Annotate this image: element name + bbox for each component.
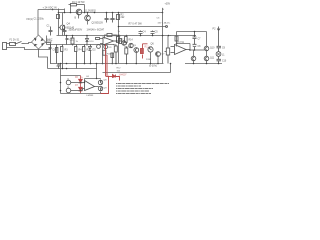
svg-text:1k: 1k	[76, 41, 79, 43]
wire to jack2	[60, 90, 62, 92]
transistor Q13	[122, 41, 126, 45]
svg-text:C7: C7	[198, 39, 202, 41]
bridge rectifier BR1	[32, 35, 46, 49]
diode D10	[86, 36, 89, 46]
red wire B	[106, 55, 108, 76]
transistor Q8	[98, 80, 102, 84]
pot P2	[217, 27, 220, 47]
svg-text:Q6: Q6	[151, 43, 155, 46]
bottom rail	[50, 63, 164, 65]
svg-text:R10: R10	[125, 46, 130, 48]
capacitor C5	[151, 31, 155, 36]
svg-text:1N4148 + BC547: 1N4148 + BC547	[87, 30, 105, 32]
wire x64 down	[63, 9, 65, 25]
svg-text:C6: C6	[157, 18, 161, 20]
svg-text:D2: D2	[93, 49, 97, 52]
input rail	[52, 9, 54, 11]
svg-text:C11: C11	[70, 40, 75, 42]
jack J3	[66, 88, 71, 93]
resistor R8	[107, 34, 112, 37]
transistor Q1	[76, 9, 82, 15]
wire bridge minus down	[39, 49, 48, 69]
pot P1	[165, 47, 170, 64]
U3 feedback	[177, 44, 191, 51]
svg-text:R4: R4	[79, 49, 83, 52]
svg-text:R12: R12	[117, 68, 122, 70]
op-amp U4	[71, 81, 99, 91]
diode D1 on x58	[57, 15, 60, 19]
svg-text:3300: 3300	[47, 41, 53, 44]
svg-text:LM393: LM393	[87, 95, 94, 97]
resistor R1 over Q1	[69, 4, 85, 6]
svg-text:(0-30V): (0-30V)	[149, 65, 157, 68]
transistor Q9	[98, 86, 102, 91]
red diode D7	[79, 83, 83, 93]
svg-text:F1 2A: F1 2A	[10, 39, 17, 42]
svg-text:R7 0.47 5W: R7 0.47 5W	[129, 23, 143, 26]
capacitor C0	[49, 27, 53, 36]
svg-text:C9: C9	[222, 47, 226, 49]
svg-text:D9: D9	[109, 47, 113, 49]
transistor Q10	[204, 46, 209, 51]
resistor R19	[111, 53, 114, 64]
wire U4 top	[85, 79, 101, 83]
lamp L1	[216, 52, 221, 57]
wire U2 minus down	[102, 44, 104, 64]
diode D3	[56, 45, 58, 64]
svg-text:Q2 BD139: Q2 BD139	[92, 21, 104, 24]
cluster feed wire	[60, 64, 62, 94]
zener D2	[89, 45, 92, 64]
wire U3 plus up	[176, 32, 178, 47]
capacitor C7	[193, 32, 197, 45]
capacitor C9	[217, 46, 222, 51]
svg-text:D7: D7	[75, 85, 79, 87]
node	[94, 12, 96, 14]
U3 output node	[189, 49, 191, 52]
top rail	[59, 12, 163, 14]
wire AC top	[25, 43, 32, 44]
output bus	[185, 63, 222, 65]
rail y26	[119, 26, 167, 28]
capacitor C4	[139, 31, 143, 36]
capacitor C6	[49, 45, 52, 64]
vertical x58	[58, 9, 60, 36]
top wire right	[177, 31, 207, 33]
red diode D6	[79, 76, 83, 83]
svg-text:Q11: Q11	[210, 58, 215, 60]
svg-text:C5: C5	[155, 31, 159, 34]
diode D9	[104, 45, 108, 49]
svg-text:1k: 1k	[118, 31, 121, 33]
svg-text:Q5: Q5	[133, 45, 137, 47]
rail end arrow	[163, 9, 164, 13]
svg-text:3300uF/50V: 3300uF/50V	[69, 29, 83, 32]
vertical x163	[162, 13, 164, 64]
red diode D5	[106, 75, 120, 81]
transistor Q7	[156, 52, 161, 57]
transistor Q5	[134, 48, 139, 53]
rail y35.5	[57, 35, 171, 37]
wire base drive	[190, 49, 204, 51]
node after D6	[80, 82, 82, 84]
jack J2	[66, 80, 71, 85]
svg-text:220R: 220R	[146, 59, 152, 61]
svg-text:+35V: +35V	[165, 3, 171, 6]
wire Q2 emitter	[87, 21, 89, 25]
capacitor C8	[193, 44, 197, 50]
capacitor C1 big	[63, 27, 67, 36]
svg-text:R3: R3	[65, 49, 69, 52]
capacitor C10	[217, 56, 222, 63]
wire Q12 collector	[193, 50, 195, 56]
transistor Q4	[59, 25, 66, 30]
resistor R17	[175, 36, 178, 41]
resistor R16	[103, 50, 106, 55]
svg-text:R14: R14	[129, 40, 134, 42]
wire Q12 emitter	[193, 61, 195, 64]
wire Q10 top	[206, 32, 208, 47]
wire bridge plus up	[37, 10, 39, 36]
wire U2 fb	[105, 35, 117, 41]
rail y35.5 extension	[170, 35, 196, 37]
transistor Q6	[148, 46, 153, 52]
notes text	[116, 84, 169, 94]
svg-text:C1 2200u: C1 2200u	[34, 17, 45, 20]
resistor R5	[83, 45, 85, 64]
vertical x118	[118, 13, 120, 64]
svg-text:VR(1): VR(1)	[26, 17, 33, 21]
svg-text:34V 1.5A DC: 34V 1.5A DC	[158, 22, 171, 25]
svg-text:Q4: Q4	[67, 23, 71, 26]
diode D8	[97, 45, 101, 49]
switch S1	[15, 39, 25, 43]
svg-text:R8 10k: R8 10k	[114, 35, 122, 37]
rail y45	[47, 44, 115, 46]
svg-text:B: B	[75, 17, 77, 20]
wire U4 bottom	[61, 92, 101, 94]
svg-text:L1: L1	[222, 54, 225, 56]
svg-text:C4: C4	[143, 31, 147, 34]
fuse F1	[10, 39, 17, 46]
capacitor C2	[105, 13, 109, 23]
transistor Q11	[204, 56, 209, 61]
wire Q1 base	[78, 15, 80, 19]
resistor R3	[61, 45, 63, 69]
wire sense return	[103, 64, 171, 73]
svg-text:C10: C10	[222, 60, 227, 62]
svg-text:2k2: 2k2	[121, 16, 126, 19]
node after D7	[80, 90, 82, 92]
svg-text:P2: P2	[213, 28, 217, 31]
resistor R14	[125, 36, 128, 45]
svg-text:+ 24 VDC IN: + 24 VDC IN	[43, 6, 57, 9]
AC plug J1	[3, 43, 10, 50]
wire cluster top	[61, 75, 81, 77]
resistor R4	[75, 45, 77, 69]
wire U4 supply	[96, 64, 98, 79]
svg-text:D10: D10	[90, 41, 95, 43]
svg-text:R11: R11	[145, 46, 150, 49]
op-amp U3	[171, 45, 191, 55]
capacitor C11	[66, 36, 69, 45]
svg-text:C1: C1	[47, 25, 51, 28]
transistor Q14	[129, 43, 133, 47]
op-amp U2	[100, 37, 122, 45]
resistor R18	[119, 39, 122, 44]
ground	[57, 64, 61, 69]
svg-text:D6: D6	[75, 77, 79, 79]
resistor R2	[117, 15, 120, 20]
wire AC bottom	[10, 43, 51, 50]
ground bus	[48, 68, 98, 70]
transistor Q12	[191, 56, 196, 61]
wire Q10-Q11	[206, 51, 208, 64]
svg-text:1N4007: 1N4007	[119, 75, 128, 77]
red wire A	[105, 44, 107, 76]
wire R1 leads	[71, 5, 85, 13]
svg-text:Q10: Q10	[210, 48, 215, 50]
resistor R20	[71, 36, 74, 46]
svg-text:R1 0.1R 5W: R1 0.1R 5W	[72, 2, 85, 4]
svg-text:1k: 1k	[81, 77, 84, 79]
svg-text:Q9: Q9	[104, 88, 108, 90]
transistor Q2	[85, 15, 91, 21]
capacitor C3	[111, 13, 115, 23]
wire to jack1	[60, 82, 62, 84]
svg-text:U4: U4	[86, 76, 90, 78]
svg-text:Q8: Q8	[104, 80, 108, 82]
node	[58, 12, 60, 14]
svg-text:S1: S1	[17, 39, 21, 41]
red resistor R11	[141, 44, 148, 59]
svg-text:C8: C8	[198, 46, 202, 48]
resistor R13	[117, 37, 120, 43]
svg-text:Q7: Q7	[162, 54, 166, 56]
resistor R9	[114, 45, 117, 64]
wire Q4 emitter	[62, 31, 64, 36]
resistor R15	[96, 38, 100, 40]
red loop	[101, 77, 109, 94]
resistor R10	[125, 47, 128, 64]
